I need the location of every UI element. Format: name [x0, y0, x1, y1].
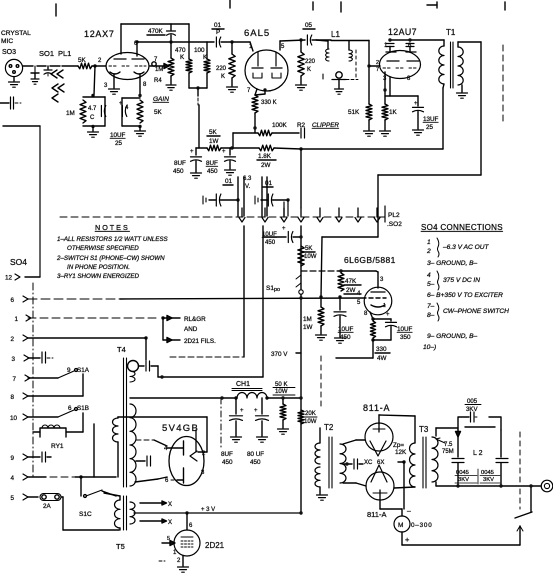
svg-text:20K: 20K	[305, 410, 316, 417]
svg-text:811-A: 811-A	[363, 403, 390, 413]
svg-text:M: M	[398, 522, 403, 529]
svg-text:RY1: RY1	[51, 443, 64, 450]
svg-text:51K: 51K	[348, 109, 360, 116]
svg-text:CH1: CH1	[236, 381, 250, 388]
svg-text:GAIN: GAIN	[153, 96, 169, 103]
svg-text:T3: T3	[419, 425, 429, 434]
svg-text:+: +	[414, 101, 418, 107]
svg-text:8UF: 8UF	[221, 451, 233, 458]
svg-text:2: 2	[177, 558, 181, 564]
svg-text:PL2: PL2	[388, 212, 400, 219]
svg-text:SO1: SO1	[39, 49, 54, 58]
svg-text:10–): 10–)	[423, 344, 436, 351]
svg-text:6: 6	[165, 478, 169, 484]
svg-text:5V4GB: 5V4GB	[162, 423, 199, 434]
svg-text:1: 1	[14, 316, 18, 323]
svg-text:25: 25	[426, 124, 434, 131]
svg-text:4: 4	[427, 272, 431, 279]
svg-text:4: 4	[164, 446, 168, 452]
svg-text:12K: 12K	[395, 449, 407, 456]
svg-text:330 K: 330 K	[261, 100, 277, 106]
svg-text:470: 470	[175, 47, 186, 54]
svg-text:5: 5	[281, 44, 285, 50]
svg-text:+: +	[254, 408, 258, 414]
svg-text:5K: 5K	[305, 245, 312, 252]
svg-text:10W: 10W	[304, 253, 317, 260]
svg-text:8UF: 8UF	[206, 160, 218, 167]
svg-text:T4: T4	[117, 345, 126, 354]
svg-text:47K: 47K	[345, 278, 357, 285]
svg-text:2D21: 2D21	[205, 541, 225, 550]
svg-text:6– B+350 V TO EXCITER: 6– B+350 V TO EXCITER	[427, 292, 503, 299]
svg-text:2: 2	[10, 336, 14, 343]
svg-text:80 UF: 80 UF	[247, 451, 264, 458]
svg-text:01: 01	[265, 180, 273, 187]
svg-text:220: 220	[216, 66, 227, 72]
svg-text:450: 450	[340, 334, 351, 341]
svg-text:5: 5	[10, 495, 14, 502]
svg-text:3– GROUND, B–: 3– GROUND, B–	[427, 260, 478, 267]
svg-text:005: 005	[467, 398, 478, 405]
svg-text:K: K	[180, 54, 185, 61]
svg-text:10UF: 10UF	[397, 326, 413, 333]
svg-text:T5: T5	[116, 542, 125, 551]
svg-text:1: 1	[427, 239, 431, 246]
svg-text:S1C: S1C	[79, 511, 92, 518]
svg-text:375 V DC IN: 375 V DC IN	[443, 277, 480, 284]
svg-text:3KV: 3KV	[483, 477, 494, 483]
svg-text:Zp=: Zp=	[393, 442, 404, 449]
svg-text:7: 7	[12, 376, 16, 383]
svg-text:5K: 5K	[154, 109, 163, 116]
svg-text:+: +	[282, 226, 286, 232]
svg-text:IN PHONE POSITION.: IN PHONE POSITION.	[67, 264, 130, 271]
svg-text:NOTES: NOTES	[95, 223, 130, 232]
svg-text:25: 25	[115, 140, 123, 147]
svg-text:5–: 5–	[427, 281, 435, 288]
svg-text:7: 7	[247, 88, 251, 94]
svg-text:6L6GB/5881: 6L6GB/5881	[344, 255, 396, 265]
svg-text:CW–PHONE SWITCH: CW–PHONE SWITCH	[443, 308, 509, 315]
svg-text:+: +	[386, 312, 390, 318]
svg-text:8: 8	[201, 470, 205, 476]
svg-text:220: 220	[305, 59, 316, 65]
svg-text:L1: L1	[331, 30, 340, 39]
svg-text:4: 4	[125, 105, 129, 111]
svg-text:4.7: 4.7	[88, 106, 97, 112]
svg-text:450: 450	[250, 459, 261, 466]
svg-text:8–: 8–	[427, 312, 435, 319]
svg-text:K: K	[307, 67, 311, 73]
svg-text:5K: 5K	[209, 129, 218, 136]
svg-text:100: 100	[194, 47, 205, 54]
svg-text:R4: R4	[154, 78, 162, 84]
svg-text:.SO2: .SO2	[387, 221, 402, 228]
svg-text:S1B: S1B	[77, 405, 89, 412]
svg-text:+ 3 V: + 3 V	[201, 507, 215, 513]
svg-text:8: 8	[364, 311, 368, 317]
svg-text:10UF: 10UF	[338, 326, 354, 333]
svg-text:3: 3	[11, 356, 15, 363]
svg-text:01: 01	[225, 178, 233, 185]
svg-text:12AX7: 12AX7	[84, 29, 115, 39]
svg-text:RL&GR: RL&GR	[184, 316, 206, 323]
svg-text:C: C	[90, 115, 95, 121]
svg-text:X: X	[168, 502, 172, 508]
svg-text:50 K: 50 K	[275, 381, 288, 388]
svg-text:po: po	[274, 287, 280, 293]
svg-text:X: X	[168, 520, 172, 526]
svg-text:10W: 10W	[304, 418, 317, 425]
svg-text:470K: 470K	[148, 28, 164, 35]
svg-text:8: 8	[143, 82, 147, 88]
svg-text:10UF: 10UF	[110, 132, 126, 139]
svg-text:330: 330	[376, 346, 387, 353]
svg-text:6AL5: 6AL5	[244, 28, 270, 39]
svg-text:811-A: 811-A	[367, 510, 386, 519]
svg-text:SO4: SO4	[10, 257, 27, 267]
svg-text:10W: 10W	[275, 388, 288, 395]
svg-text:–6.3 V AC OUT: –6.3 V AC OUT	[442, 244, 490, 251]
svg-text:7: 7	[376, 67, 379, 73]
svg-text:3: 3	[104, 83, 108, 89]
svg-text:CLIPPER: CLIPPER	[312, 122, 339, 129]
svg-text:8UF: 8UF	[174, 160, 186, 167]
svg-text:SO4 CONNECTIONS: SO4 CONNECTIONS	[421, 223, 503, 232]
svg-text:AND: AND	[184, 326, 198, 333]
svg-text:2D21 FILS.: 2D21 FILS.	[184, 338, 216, 345]
svg-text:3KV: 3KV	[458, 477, 469, 483]
svg-text:2W: 2W	[261, 162, 271, 169]
svg-text:–: –	[407, 508, 411, 515]
svg-text:2: 2	[426, 248, 431, 255]
svg-text:+: +	[240, 408, 244, 414]
svg-text:75M: 75M	[442, 449, 454, 455]
svg-text:1K: 1K	[389, 109, 398, 116]
svg-text:3: 3	[380, 277, 384, 283]
svg-text:+: +	[405, 535, 410, 544]
svg-text:1–ALL RESISTORS 1/2 WATT UNLES: 1–ALL RESISTORS 1/2 WATT UNLESS	[57, 236, 168, 243]
svg-text:7–: 7–	[427, 303, 435, 310]
svg-text:XC: XC	[364, 460, 373, 466]
svg-text:PL1: PL1	[58, 49, 71, 58]
svg-text:+: +	[190, 149, 194, 155]
svg-text:05: 05	[305, 22, 313, 29]
svg-text:5: 5	[167, 536, 170, 542]
svg-text:1W: 1W	[303, 324, 313, 331]
svg-text:100K: 100K	[272, 122, 288, 129]
svg-text:2: 2	[376, 60, 379, 66]
svg-text:L 2: L 2	[473, 450, 483, 457]
svg-text:4: 4	[10, 475, 14, 482]
svg-text:CRYSTAL: CRYSTAL	[1, 30, 31, 37]
svg-text:10: 10	[10, 415, 18, 422]
svg-text:12AU7: 12AU7	[388, 27, 417, 37]
svg-text:+: +	[222, 149, 226, 155]
svg-text:9– GROUND, B–: 9– GROUND, B–	[427, 333, 478, 340]
svg-text:OTHERWISE SPECIFIED: OTHERWISE SPECIFIED	[67, 245, 139, 252]
svg-text:450: 450	[207, 168, 218, 175]
svg-text:3KV: 3KV	[466, 406, 478, 413]
svg-text:S1A: S1A	[77, 367, 90, 374]
svg-text:6X: 6X	[377, 460, 384, 466]
svg-text:V.: V.	[245, 184, 250, 190]
svg-text:6: 6	[10, 297, 14, 304]
svg-text:K: K	[221, 74, 225, 80]
svg-text:6: 6	[189, 523, 193, 529]
svg-text:2W: 2W	[346, 287, 356, 294]
svg-text:01: 01	[214, 22, 222, 29]
svg-text:T1: T1	[446, 28, 456, 37]
svg-text:450: 450	[222, 459, 233, 466]
svg-text:13UF: 13UF	[423, 116, 439, 123]
svg-text:1M: 1M	[303, 316, 312, 323]
svg-text:MIC: MIC	[1, 38, 13, 45]
svg-text:2: 2	[98, 58, 102, 64]
svg-text:12: 12	[5, 275, 13, 282]
svg-text:1W: 1W	[209, 138, 219, 145]
svg-text:1M: 1M	[155, 67, 163, 73]
svg-text:T2: T2	[324, 423, 334, 432]
svg-text:9: 9	[10, 455, 14, 462]
svg-text:450: 450	[173, 168, 184, 175]
svg-text:2–SWITCH S1 (PHONE–CW) SHOWN: 2–SWITCH S1 (PHONE–CW) SHOWN	[56, 255, 165, 262]
svg-text:+: +	[119, 101, 123, 107]
svg-text:1M: 1M	[66, 110, 75, 117]
svg-text:5: 5	[357, 300, 361, 306]
svg-text:2A: 2A	[43, 503, 52, 510]
svg-text:10UF: 10UF	[262, 231, 277, 238]
svg-text:4W: 4W	[377, 355, 387, 362]
svg-text:3–RY1 SHOWN ENERGIZED: 3–RY1 SHOWN ENERGIZED	[57, 273, 139, 280]
svg-text:P: P	[216, 29, 220, 36]
svg-text:1.8K: 1.8K	[258, 153, 272, 160]
svg-text:1: 1	[383, 303, 386, 309]
svg-text:350: 350	[400, 334, 411, 341]
svg-text:370 V: 370 V	[271, 351, 288, 358]
svg-text:450: 450	[265, 239, 276, 246]
svg-text:0–300: 0–300	[411, 522, 433, 529]
svg-text:SO3: SO3	[2, 49, 16, 56]
svg-text:8: 8	[10, 394, 14, 401]
